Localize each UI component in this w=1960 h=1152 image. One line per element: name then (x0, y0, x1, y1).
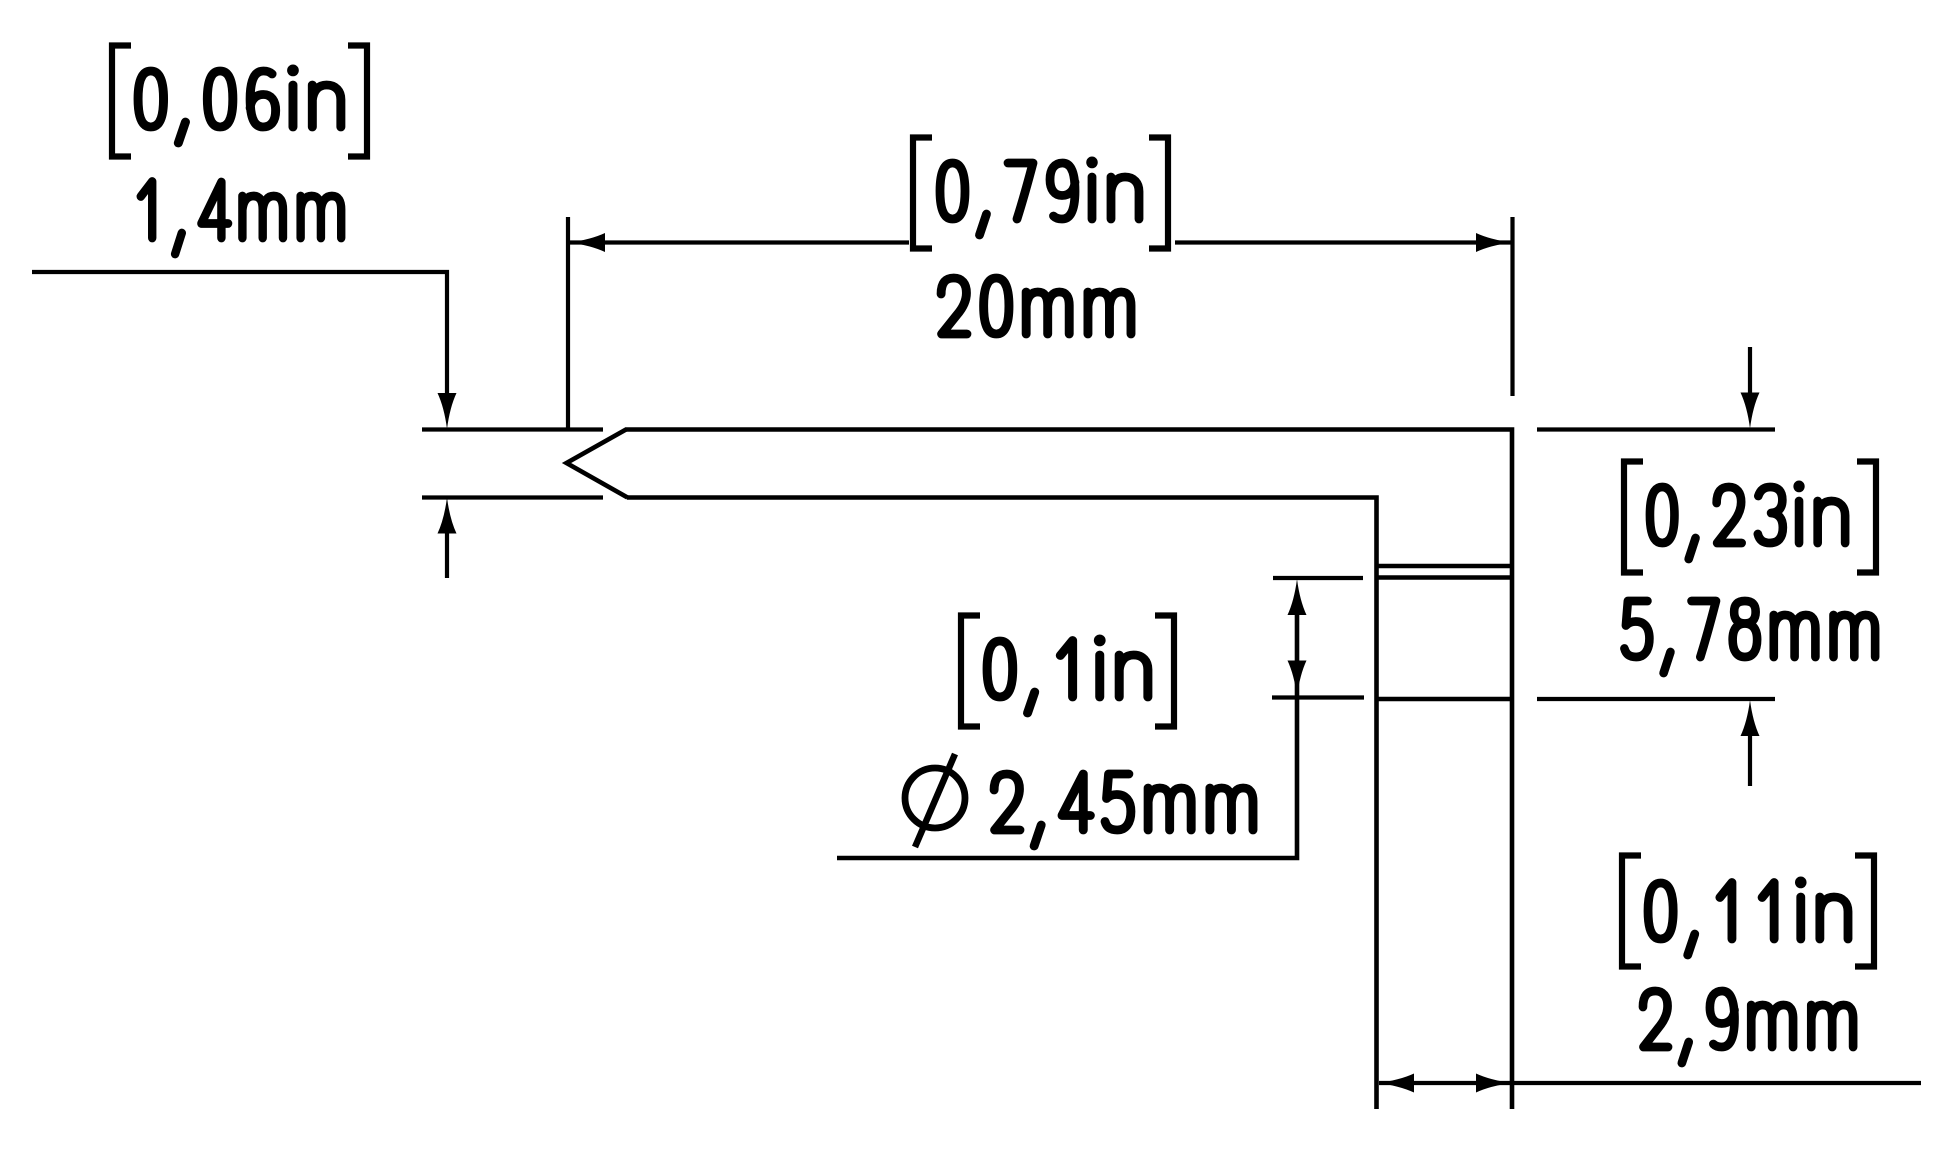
dimension 1,4mm: label [0,06in] (112, 46, 367, 157)
dimension 20mm: right extension line (1510, 217, 1514, 396)
dimension 2,9mm: dimension line with outward arrowheads (1378, 1074, 1921, 1093)
dimension 2,45mm: label 2,45mm (994, 774, 1253, 846)
dimension 1,4mm: bottom extension tick (422, 495, 603, 499)
dimension 5,78mm: label [0,23in] (1624, 462, 1876, 573)
dimension 1,4mm: top extension tick (422, 427, 603, 431)
part outline: blade top edge and right outer edge (625, 430, 1512, 1110)
part outline: blade bottom edge and inner vertical edge (627, 498, 1377, 1110)
dimension 2,45mm: label [0,1in] (961, 616, 1174, 727)
dimension 1,4mm: up arrowhead with tail (438, 498, 457, 579)
dimension 2,45mm: double-headed arrow and leader to label (837, 579, 1307, 858)
part detail: upper thin band line 1 (1375, 564, 1515, 568)
dimension 5,78mm: bottom extension line (1537, 697, 1775, 701)
dimension 20mm: label [0,79in] (913, 138, 1168, 249)
dimension 2,9mm: label [0,11in] (1622, 856, 1874, 967)
dimension 1,4mm: leader line from label (32, 272, 447, 396)
dimension 5,78mm: top extension line (1537, 427, 1775, 431)
part outline: pointed tip of blade (567, 430, 628, 498)
dimension 5,78mm: label 5,78mm (1624, 601, 1875, 673)
dimension 20mm: left extension line at blade tip (566, 217, 570, 430)
dimension 2,9mm: label 2,9mm (1643, 991, 1853, 1063)
dimension 2,45mm: upper extension tick (1273, 576, 1363, 580)
dimension 5,78mm: up arrow with tail (1741, 700, 1760, 786)
part detail: upper thin band line 2 (1375, 575, 1515, 579)
dimension 2,45mm: diameter symbol (905, 754, 965, 847)
dimension 1,4mm: label 1,4mm (141, 182, 341, 255)
dimension 20mm: label 20mm (941, 278, 1131, 334)
dimension 5,78mm: down arrow with leader (1741, 347, 1760, 429)
dimension 1,4mm: down arrowhead (438, 393, 457, 429)
dimension 20mm: dimension line with arrowheads (569, 233, 1512, 252)
part detail: lower section line (1375, 697, 1515, 702)
dimension 2,45mm: lower extension tick (1272, 695, 1364, 699)
